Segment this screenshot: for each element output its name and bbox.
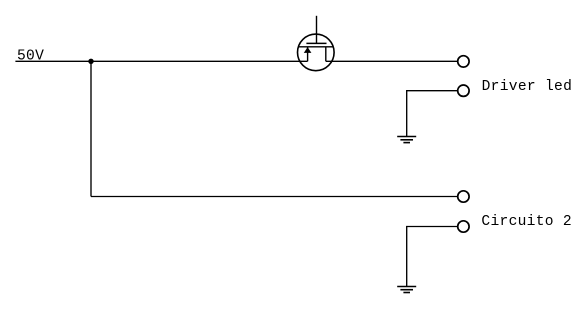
svg-text:50V: 50V [17,48,44,64]
wire: 50V rail left segment to Q1 source leg [15,60,307,62]
transistor Q1 (MOSFET) [298,16,335,71]
terminal J1 (drain output) [458,56,469,67]
svg-text:Driver led: Driver led [482,79,573,95]
terminal J4 (Circuito 2 return) [458,221,469,232]
wire: Q1 drain leg to terminal J1 [326,60,458,62]
wire: terminal J2 to ground stub [407,91,458,137]
node A (junction dot on 50V rail) [88,59,93,64]
ground (Circuito 2 return) [397,287,416,293]
terminal J3 (Circuito 2 feed) [458,191,469,202]
wire: vertical from node A down to lower branch [90,61,92,196]
wire: lower branch horizontal to terminal J3 [91,196,458,198]
svg-text:Circuito 2: Circuito 2 [481,214,572,230]
wire: terminal J4 to ground stub [407,227,458,287]
ground (Driver led return) [397,137,416,143]
terminal J2 (Driver led return) [458,85,469,96]
